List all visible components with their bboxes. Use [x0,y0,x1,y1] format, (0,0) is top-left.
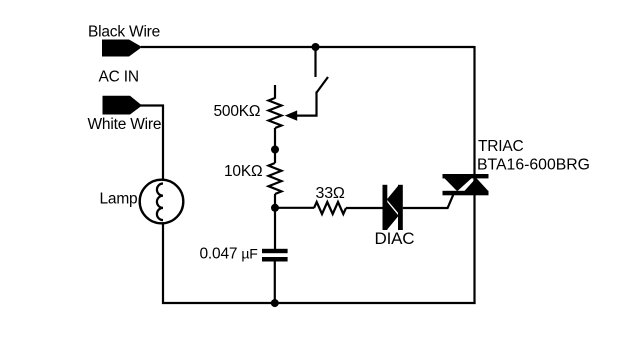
svg-text:Lamp: Lamp [100,191,138,208]
svg-text:BTA16-600BRG: BTA16-600BRG [477,156,590,173]
TRIAC Q1 down triangle [444,178,472,191]
wire branch to 33ohm [275,207,314,209]
svg-text:White Wire: White Wire [88,116,162,133]
resistor R3 33ohm body [314,202,346,214]
node junction bottom [271,299,279,307]
wire pot to 10K [274,128,276,163]
potentiometer R1 500K top lead [274,85,276,99]
node junction top (switch tap) [312,43,320,51]
wire 33ohm to DIAC [346,207,384,209]
resistor R2 10K body [269,163,282,194]
DIAC right bar [398,185,403,230]
DIAC D1 lower triangle (points right) [387,202,399,231]
potentiometer R1 500K body [269,98,282,128]
wire switch to wiper [297,92,317,116]
wire bottom horizontal [162,302,476,304]
TRIAC Q1 top bar [443,174,489,178]
node junction RC branch [271,204,279,212]
connector white wire flag [103,96,143,115]
capacitor C1 top plate [262,249,288,253]
TRIAC Q1 up triangle [464,178,488,191]
svg-text:33Ω: 33Ω [316,185,345,202]
DIAC D1 upper triangle (points left) [387,185,399,213]
connector black wire flag [102,40,142,57]
svg-text:TRIAC: TRIAC [478,138,524,155]
node junction pot bottom [271,146,279,154]
lamp filament [157,184,163,221]
svg-text:DIAC: DIAC [375,229,415,248]
TRIAC Q1 bottom bar [443,191,489,196]
svg-text:500KΩ: 500KΩ [214,103,261,120]
wire top horizontal (black wire to top-right corner) [141,46,475,48]
wire cap to bottom [274,262,276,305]
wire right vertical [473,46,475,304]
svg-text:10KΩ: 10KΩ [224,163,262,180]
wire DIAC to TRIAC gate [403,195,453,208]
svg-text:0.047 µF: 0.047 µF [200,246,258,263]
svg-text:AC IN: AC IN [99,69,139,86]
DIAC left bar [383,185,388,230]
potentiometer wiper arrowhead [285,110,298,120]
wire lamp to bottom [162,223,164,304]
svg-text:Black Wire: Black Wire [88,24,160,41]
switch SW1 blade (open) [317,77,328,93]
wire switch drop [314,47,316,77]
wire white-wire to lamp branch [140,106,163,181]
wire 10K to cap [274,194,276,249]
capacitor C1 bottom plate [262,257,288,262]
lamp circle [140,180,184,224]
